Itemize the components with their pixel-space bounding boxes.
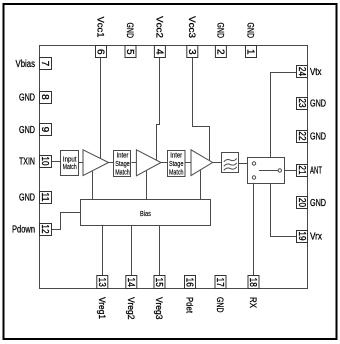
svg-text:GND: GND bbox=[310, 132, 326, 143]
filter FL1 bbox=[222, 153, 239, 173]
wire Pdown pin12 to bias bbox=[52, 213, 81, 230]
svg-text:15: 15 bbox=[153, 278, 164, 288]
pin 13 box bbox=[96, 276, 108, 289]
pin 22 box bbox=[296, 131, 308, 143]
svg-text:22: 22 bbox=[296, 131, 307, 141]
svg-text:Vrx: Vrx bbox=[310, 232, 322, 243]
amplifier A2 bbox=[136, 150, 161, 176]
wire amp2 to bias bbox=[146, 171, 148, 200]
wire switch to Vrx pin19 bbox=[271, 184, 297, 237]
svg-text:2: 2 bbox=[214, 49, 225, 55]
pin 23 box bbox=[296, 98, 308, 110]
svg-text:14: 14 bbox=[125, 278, 136, 288]
svg-text:Vreg2: Vreg2 bbox=[125, 297, 136, 320]
pin 2 box bbox=[214, 46, 226, 58]
svg-text:Pdown: Pdown bbox=[12, 225, 35, 236]
svg-text:GND: GND bbox=[19, 125, 35, 136]
svg-text:13: 13 bbox=[96, 278, 107, 288]
svg-text:GND: GND bbox=[214, 297, 225, 313]
wire amp2 to interstage match 2 bbox=[161, 162, 168, 164]
bias block bbox=[81, 200, 211, 226]
wire amp1 to interstage match 1 bbox=[109, 162, 114, 164]
wire switch to ANT pin21 bbox=[282, 170, 297, 172]
pin 6 box bbox=[95, 46, 107, 58]
wire Vcc3 pin3 to amp3 bbox=[193, 58, 210, 161]
svg-text:Vcc2: Vcc2 bbox=[154, 16, 165, 38]
svg-text:Vcc3: Vcc3 bbox=[186, 16, 197, 38]
wire filter to switch bbox=[239, 163, 253, 165]
svg-text:Bias: Bias bbox=[140, 209, 151, 218]
svg-text:Vreg3: Vreg3 bbox=[153, 297, 164, 320]
svg-text:6: 6 bbox=[95, 49, 106, 55]
svg-text:RX: RX bbox=[247, 297, 258, 309]
amplifier A3 bbox=[191, 150, 213, 176]
svg-text:Input: Input bbox=[63, 156, 77, 163]
input match block bbox=[61, 151, 79, 176]
wire amp3 to filter bbox=[213, 162, 222, 164]
svg-text:Match: Match bbox=[169, 170, 184, 177]
svg-text:1: 1 bbox=[245, 49, 256, 55]
wire interstage match 1 to amp2 bbox=[132, 162, 137, 164]
svg-text:7: 7 bbox=[39, 61, 50, 67]
pin 18 box bbox=[247, 276, 259, 289]
pin 14 box bbox=[125, 276, 137, 289]
svg-text:19: 19 bbox=[296, 231, 307, 241]
svg-text:4: 4 bbox=[153, 49, 164, 55]
svg-text:Stage: Stage bbox=[169, 161, 184, 168]
svg-text:Vreg1: Vreg1 bbox=[96, 297, 107, 319]
svg-text:Match: Match bbox=[115, 170, 130, 177]
pin 24 box bbox=[296, 66, 308, 78]
pin 3 box bbox=[186, 46, 198, 58]
pin 11 box bbox=[39, 192, 52, 204]
svg-text:Vbias: Vbias bbox=[16, 59, 36, 70]
pin 17 box bbox=[214, 276, 226, 289]
svg-text:GND: GND bbox=[19, 93, 35, 104]
wire Vtx pin24 to switch top bbox=[271, 73, 297, 158]
svg-text:24: 24 bbox=[296, 67, 307, 77]
svg-text:18: 18 bbox=[247, 278, 258, 288]
svg-text:Vtx: Vtx bbox=[310, 67, 322, 78]
pin 21 box bbox=[296, 165, 308, 177]
pin 15 box bbox=[153, 276, 165, 289]
wire Vcc1 pin6 to amp1 bbox=[100, 58, 102, 159]
svg-text:8: 8 bbox=[39, 94, 50, 100]
svg-text:GND: GND bbox=[245, 23, 256, 39]
pin 8 box bbox=[39, 92, 52, 104]
wire input match to amp1 bbox=[79, 162, 84, 164]
pin 10 box bbox=[39, 156, 52, 168]
pin 16 box bbox=[184, 276, 196, 289]
wire TXIN pin10 to input match bbox=[52, 161, 61, 163]
svg-text:Pdet: Pdet bbox=[184, 297, 195, 313]
svg-text:GND: GND bbox=[310, 99, 326, 110]
svg-text:9: 9 bbox=[39, 127, 50, 133]
pin 7 box bbox=[39, 58, 52, 70]
pin 19 box bbox=[296, 231, 308, 243]
wire bias to Vreg2 pin14 bbox=[131, 226, 133, 276]
pin 4 box bbox=[153, 46, 165, 58]
pin 12 box bbox=[39, 224, 52, 236]
svg-text:16: 16 bbox=[184, 278, 195, 288]
svg-text:11: 11 bbox=[39, 192, 50, 202]
svg-text:GND: GND bbox=[215, 23, 226, 39]
svg-text:5: 5 bbox=[124, 49, 135, 55]
svg-text:Vcc1: Vcc1 bbox=[95, 17, 106, 38]
wire interstage match 2 to amp3 bbox=[185, 162, 191, 164]
wire amp1 to bias bbox=[92, 171, 94, 199]
svg-text:GND: GND bbox=[310, 198, 326, 209]
amplifier A1 bbox=[83, 150, 109, 176]
svg-text:10: 10 bbox=[39, 156, 50, 166]
svg-text:17: 17 bbox=[214, 278, 225, 288]
svg-text:12: 12 bbox=[39, 224, 50, 234]
svg-text:TXIN: TXIN bbox=[19, 157, 35, 168]
svg-text:23: 23 bbox=[296, 98, 307, 108]
svg-text:20: 20 bbox=[296, 198, 307, 208]
svg-text:ANT: ANT bbox=[310, 166, 322, 177]
pin 5 box bbox=[124, 46, 136, 58]
svg-text:Inter: Inter bbox=[170, 153, 183, 160]
wire switch to RX pin18 bbox=[253, 180, 255, 276]
wire Vcc2 pin4 to amp2 bbox=[157, 58, 160, 161]
svg-text:3: 3 bbox=[186, 49, 197, 55]
pin 20 box bbox=[296, 197, 308, 209]
svg-text:Stage: Stage bbox=[115, 161, 130, 168]
interstage match 2 bbox=[168, 151, 186, 177]
svg-text:21: 21 bbox=[296, 165, 307, 175]
switch SW1 bbox=[248, 158, 285, 184]
wire amp3 to bias bbox=[200, 170, 202, 199]
interstage match 1 bbox=[114, 151, 131, 177]
wire bias to Vreg1 pin13 bbox=[102, 226, 104, 276]
svg-text:Inter: Inter bbox=[117, 153, 130, 160]
wire bias to Vreg3 pin15 bbox=[159, 226, 161, 276]
pin 1 box bbox=[245, 46, 257, 58]
chip outline U1 bbox=[40, 46, 308, 289]
svg-text:GND: GND bbox=[124, 23, 135, 39]
svg-text:GND: GND bbox=[19, 193, 35, 204]
pin 9 box bbox=[39, 124, 52, 136]
svg-text:Match: Match bbox=[63, 164, 77, 171]
